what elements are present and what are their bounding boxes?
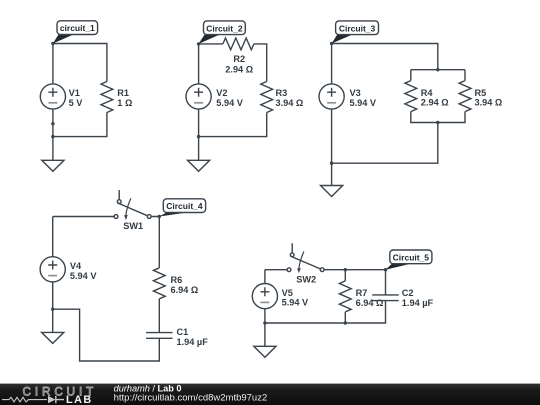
wire left rail V3 top	[331, 44, 333, 84]
node parallel top	[436, 68, 439, 71]
wire V1 bottom	[52, 109, 54, 160]
node V4 bottom junction	[51, 308, 54, 311]
resistor R4	[405, 81, 417, 112]
resistor R7	[339, 281, 351, 312]
wire top wire V4 to SW1	[53, 216, 114, 218]
label callout circuit_1	[53, 35, 74, 44]
wire bottom stem	[332, 123, 438, 164]
svg-text:LAB: LAB	[66, 394, 93, 405]
ground	[254, 346, 276, 357]
wire top-left to R2	[199, 43, 223, 45]
svg-text:R4: R4	[421, 88, 434, 98]
svg-text:1 Ω: 1 Ω	[117, 98, 132, 108]
svg-text:1.94 µF: 1.94 µF	[402, 298, 434, 308]
svg-text:R1: R1	[117, 88, 129, 98]
svg-text:Circuit_4: Circuit_4	[166, 201, 203, 211]
wire switch top throw stub	[291, 243, 293, 253]
voltage source V3	[319, 84, 344, 109]
wire C2 bottom lead	[265, 301, 386, 323]
voltage source V2	[186, 84, 211, 109]
wire R1 bottom	[53, 113, 107, 137]
svg-text:V3: V3	[350, 88, 361, 98]
svg-text:V2: V2	[216, 88, 227, 98]
wire R3 bottom	[199, 113, 267, 137]
wire left rail V4 top	[52, 217, 54, 257]
wire R6 to C1	[158, 299, 160, 333]
voltage source V1	[40, 84, 65, 109]
node bottom junction	[197, 135, 200, 138]
svg-text:Circuit_5: Circuit_5	[393, 252, 430, 262]
wire SW1 common to R6	[151, 217, 159, 268]
capacitor C2	[372, 295, 399, 301]
wire left rail V2 top	[198, 44, 200, 84]
wire left rail V5 top	[264, 270, 266, 284]
label callout Circuit_5	[386, 264, 411, 270]
wire R2 to R3	[254, 44, 267, 82]
resistor R5	[459, 81, 471, 112]
node circuit_2	[197, 42, 200, 45]
wire V2 bottom	[198, 109, 200, 160]
svg-text:3.94 Ω: 3.94 Ω	[276, 98, 304, 108]
svg-text:5.94 V: 5.94 V	[216, 98, 243, 108]
svg-text:V5: V5	[282, 288, 293, 298]
wire V3 bottom	[331, 109, 333, 185]
node R7 bottom	[344, 321, 347, 324]
svg-text:R2: R2	[233, 54, 245, 64]
wire R7 bottom lead	[344, 312, 346, 323]
svg-text:R7: R7	[356, 288, 368, 298]
svg-text:5.94 V: 5.94 V	[282, 298, 309, 308]
svg-text:SW2: SW2	[296, 274, 316, 284]
svg-text:Circuit_2: Circuit_2	[206, 23, 243, 33]
node circuit_5	[384, 268, 387, 271]
resistor R2	[223, 38, 254, 50]
svg-text:SW1: SW1	[123, 221, 143, 231]
svg-text:R3: R3	[276, 88, 288, 98]
svg-text:1.94 µF: 1.94 µF	[177, 337, 209, 347]
svg-text:R5: R5	[475, 88, 487, 98]
wire R4 top lead	[410, 70, 412, 81]
svg-text:6.94 Ω: 6.94 Ω	[171, 285, 199, 295]
node V5 bottom junction	[263, 321, 266, 324]
svg-text:3.94 Ω: 3.94 Ω	[475, 98, 503, 108]
svg-text:C2: C2	[402, 288, 414, 298]
svg-text:6.94 Ω: 6.94 Ω	[356, 298, 384, 308]
capacitor C1	[146, 333, 173, 339]
wire top wire V5 to SW2	[265, 269, 287, 271]
node bottom junction	[51, 135, 54, 138]
node bottom junction	[330, 162, 333, 165]
svg-text:Circuit_3: Circuit_3	[339, 23, 376, 33]
wire switch top throw stub	[118, 190, 120, 200]
svg-text:2.94 Ω: 2.94 Ω	[421, 98, 449, 108]
resistor R6	[153, 268, 165, 299]
logo diode symbol	[48, 396, 56, 403]
switch SW2	[290, 253, 294, 257]
label callout Circuit_2	[199, 35, 220, 44]
wire R7 top lead	[344, 270, 346, 281]
wire C2 top lead	[385, 270, 387, 295]
svg-text:C1: C1	[177, 327, 189, 337]
wire V4 bottom	[52, 282, 54, 333]
node circuit_4	[158, 215, 161, 218]
footer bar	[0, 384, 540, 405]
wire R5 top lead	[464, 70, 466, 81]
svg-text:circuit_1: circuit_1	[60, 23, 95, 33]
svg-text:V4: V4	[70, 261, 82, 271]
svg-text:V1: V1	[69, 88, 80, 98]
svg-text:5.94 V: 5.94 V	[70, 271, 97, 281]
wire parallel top bus	[411, 69, 465, 71]
node circuit_1	[51, 42, 54, 45]
svg-text:2.94 Ω: 2.94 Ω	[225, 64, 253, 74]
label callout Circuit_3	[332, 35, 353, 44]
ground	[42, 160, 64, 171]
resistor R3	[261, 82, 273, 113]
wire parallel bottom bus	[411, 112, 465, 123]
node R7 top	[344, 268, 347, 271]
resistor R1	[101, 82, 113, 113]
node junction V1-	[51, 122, 54, 125]
logo resistor squiggle	[2, 397, 47, 402]
voltage source V5	[252, 284, 277, 309]
svg-text:R6: R6	[171, 275, 183, 285]
ground	[321, 186, 343, 197]
wire C1 bottom loop	[53, 309, 160, 361]
wire left rail V1 top	[52, 44, 54, 84]
wire top net	[332, 44, 438, 70]
ground	[42, 332, 64, 343]
voltage source V4	[40, 257, 65, 282]
svg-text:5.94 V: 5.94 V	[350, 98, 377, 108]
ground	[188, 160, 210, 171]
node parallel bottom	[436, 121, 439, 124]
label callout Circuit_4	[159, 213, 187, 217]
wire SW2 common to node	[324, 269, 385, 271]
svg-text:5 V: 5 V	[69, 98, 84, 108]
switch SW1	[117, 200, 121, 204]
wire top net circuit_1	[53, 44, 107, 82]
node circuit_3	[330, 42, 333, 45]
wire V5 bottom	[264, 309, 266, 347]
svg-text:http://circuitlab.com/cd8w2mtb: http://circuitlab.com/cd8w2mtb97uz2	[114, 393, 268, 404]
